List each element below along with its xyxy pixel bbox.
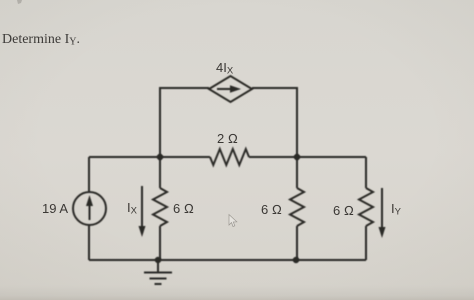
junction node middle-left [157, 154, 163, 160]
current arrow Ix [139, 186, 146, 237]
junction node bottom-right [293, 257, 299, 263]
mouse cursor [229, 215, 237, 227]
junction node middle-right [294, 154, 300, 160]
problem text [2, 32, 80, 48]
wire left branch lower [88, 225, 90, 260]
svg-text:6 Ω: 6 Ω [173, 201, 194, 216]
junction node bottom-left [155, 257, 161, 263]
ground [144, 260, 172, 284]
wire bottom segment [89, 259, 366, 261]
svg-text:6 Ω: 6 Ω [333, 203, 354, 218]
dependent source diamond [209, 76, 252, 102]
resistor R1 2ohm [210, 149, 249, 165]
svg-text:19 A: 19 A [42, 201, 68, 216]
current source I1 circle [73, 192, 106, 225]
wire R2 top stub [159, 157, 161, 188]
svg-text:Determine IY.: Determine IY. [2, 32, 80, 48]
wire top-right segment [252, 88, 297, 157]
wire R2 bottom stub [159, 226, 161, 260]
wire R3 top stub [296, 157, 298, 188]
wire top-left segment [160, 88, 209, 157]
dependent source arrow [217, 85, 241, 93]
wire R4 bottom stub [365, 226, 367, 260]
current arrow Iy [379, 188, 386, 238]
current source I1 arrow [86, 195, 93, 220]
wire middle-left segment [89, 156, 210, 158]
wire R3 bottom stub [296, 226, 298, 260]
svg-text:6 Ω: 6 Ω [261, 202, 282, 217]
resistor R2 6ohm [153, 188, 167, 226]
resistor R4 6ohm [359, 188, 373, 226]
wire left branch upper [88, 157, 90, 192]
wire middle-right segment [249, 156, 366, 158]
resistor R3 6ohm [290, 188, 304, 226]
svg-text:2 Ω: 2 Ω [217, 131, 238, 146]
stray mark top edge [17, 0, 22, 4]
wire R4 top stub [365, 157, 367, 188]
